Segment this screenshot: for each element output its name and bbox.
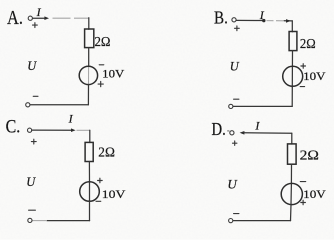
wire through source (A) xyxy=(88,66,90,85)
svg-text:10V: 10V xyxy=(102,67,124,81)
wire A bottom xyxy=(30,104,88,106)
minus sign at C bottom terminal xyxy=(29,209,36,211)
svg-text:U: U xyxy=(227,176,238,191)
label U (B) xyxy=(230,60,240,74)
terminal A bottom (−) xyxy=(26,103,30,107)
label I (D) xyxy=(254,118,260,132)
svg-text:2Ω: 2Ω xyxy=(95,35,111,50)
wire through source (B) xyxy=(291,68,293,87)
wire B resistor to source xyxy=(291,51,293,68)
label 10V (C) xyxy=(102,187,126,201)
wire D source to bottom corner xyxy=(290,205,293,221)
svg-text:10V: 10V xyxy=(303,69,326,83)
label 2Ω (C) xyxy=(98,146,115,161)
svg-text:2Ω: 2Ω xyxy=(98,146,115,161)
label 2Ω (D) xyxy=(300,149,319,164)
circuit A label xyxy=(7,7,23,29)
terminal B top (+) xyxy=(232,18,236,22)
plus sign at D top terminal xyxy=(233,141,237,145)
wire A top (faint, arrow to corner) xyxy=(53,17,89,19)
label 10V (D) xyxy=(303,187,326,201)
svg-text:U: U xyxy=(26,175,36,189)
circuit B label xyxy=(214,7,228,28)
minus sign at B source bottom xyxy=(300,86,304,88)
label U (A) xyxy=(27,59,37,73)
wire D resistor to source xyxy=(290,164,292,183)
minus sign at B bottom terminal xyxy=(234,98,239,100)
current arrow I (A), pointing right xyxy=(33,16,49,20)
voltage source 10V (B) xyxy=(283,66,303,86)
label U (C) xyxy=(26,175,36,189)
plus sign at C top terminal xyxy=(31,139,36,144)
minus sign at D bottom terminal xyxy=(234,213,239,215)
resistor R (D) xyxy=(288,144,297,164)
voltage source 10V (C) xyxy=(80,182,100,202)
minus sign at D source top xyxy=(300,181,305,183)
terminal C top (+) xyxy=(28,128,32,132)
plus sign at B top terminal xyxy=(235,26,240,31)
label 2Ω (A) xyxy=(95,35,111,50)
wire B top (faint) xyxy=(267,20,285,22)
wire D corner down to resistor xyxy=(291,133,293,144)
svg-text:A.: A. xyxy=(7,7,23,29)
resistor R (B) xyxy=(289,32,297,51)
terminal B bottom (−) xyxy=(229,104,233,108)
wire C source to bottom corner xyxy=(89,202,91,221)
svg-text:10V: 10V xyxy=(102,187,126,201)
label 2Ω (B) xyxy=(300,37,316,52)
wire C resistor to source xyxy=(88,162,90,182)
terminal D top (+) xyxy=(230,131,234,135)
plus sign at C source top xyxy=(98,178,103,183)
junction dot on B top wire xyxy=(262,19,265,22)
current arrow I (B), pointing right at corner xyxy=(284,19,292,23)
svg-text:2Ω: 2Ω xyxy=(300,149,319,164)
svg-text:D.: D. xyxy=(212,121,226,139)
terminal C bottom (−) xyxy=(28,218,32,222)
svg-text:B.: B. xyxy=(214,7,228,28)
plus sign at B source top xyxy=(301,64,306,69)
voltage source 10V (D) xyxy=(281,183,302,204)
terminal D bottom (−) xyxy=(229,219,233,223)
wire C top (faint, arrow to corner) xyxy=(77,129,90,131)
resistor R (C) xyxy=(85,142,93,161)
svg-text:U: U xyxy=(230,60,240,74)
svg-text:U: U xyxy=(27,59,37,73)
wire A source to bottom corner xyxy=(87,85,89,105)
label I (C) xyxy=(68,111,74,125)
label I (A) xyxy=(36,5,42,19)
plus sign at D source bottom xyxy=(301,200,306,205)
wire B top (terminal to arrow) xyxy=(236,19,262,21)
svg-text:2Ω: 2Ω xyxy=(300,37,316,52)
plus sign at A source bottom xyxy=(98,82,103,87)
current arrow I (D), pointing left xyxy=(240,131,292,135)
wire through source (D) xyxy=(290,183,292,205)
current arrow I (C), pointing right xyxy=(32,128,76,132)
resistor R (A) xyxy=(85,29,94,48)
terminal A top (+) xyxy=(28,16,32,20)
voltage source 10V (A) xyxy=(79,66,97,84)
label 10V (A) xyxy=(102,67,124,81)
wire through source (C) xyxy=(89,181,91,201)
circuit D label xyxy=(212,121,226,139)
label U (D) xyxy=(227,176,238,191)
wire D bottom xyxy=(233,220,291,222)
minus sign at A source top xyxy=(99,64,104,66)
minus sign at A bottom terminal xyxy=(33,95,38,97)
wire A resistor to source xyxy=(88,48,90,66)
wire B corner down to resistor xyxy=(291,21,293,32)
label I (B) xyxy=(259,8,265,22)
wire A corner down to resistor xyxy=(88,18,90,30)
wire C corner down to resistor xyxy=(89,130,91,142)
circuit C label xyxy=(6,115,21,137)
wire B bottom xyxy=(233,105,292,107)
dash before D terminal xyxy=(227,130,229,132)
svg-text:C.: C. xyxy=(6,115,21,137)
wire B source to bottom corner xyxy=(291,87,293,106)
minus sign at C source bottom xyxy=(96,200,101,202)
wire C bottom xyxy=(32,220,90,222)
plus sign at A top terminal xyxy=(33,23,38,28)
svg-text:10V: 10V xyxy=(303,187,326,201)
label 10V (B) xyxy=(303,69,326,83)
